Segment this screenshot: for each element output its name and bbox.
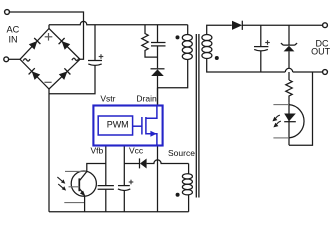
svg-text:PWM: PWM [107, 119, 129, 129]
svg-text:Drain: Drain [136, 94, 157, 104]
svg-text:Source: Source [168, 148, 195, 158]
svg-text:OUT: OUT [311, 47, 331, 57]
svg-text:Vcc: Vcc [129, 145, 144, 155]
svg-text:IN: IN [9, 35, 18, 45]
svg-text:Vstr: Vstr [100, 94, 115, 104]
svg-text:AC: AC [7, 25, 20, 35]
svg-text:Vfb: Vfb [91, 145, 104, 155]
